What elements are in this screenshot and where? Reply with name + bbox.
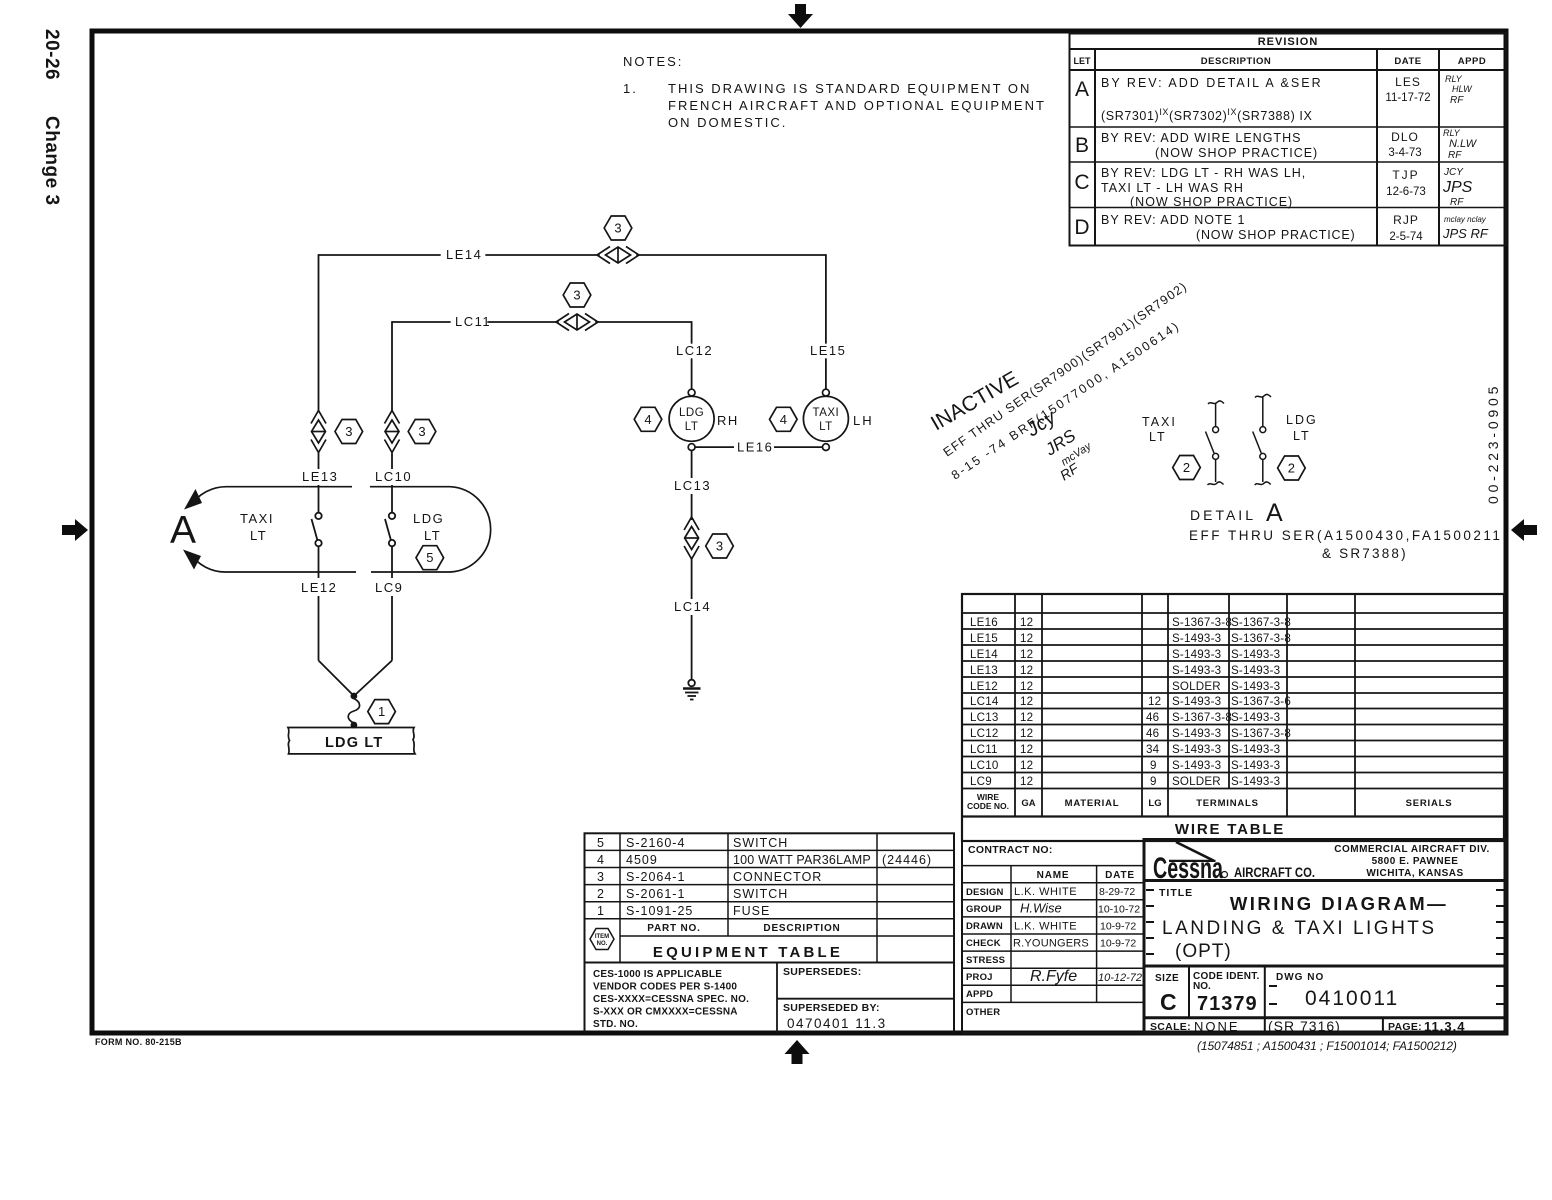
wire LE14 horizontal [319,254,441,256]
svg-text:46: 46 [1146,711,1159,724]
svg-text:SUPERSEDES:: SUPERSEDES: [783,966,862,978]
svg-text:4: 4 [644,412,651,427]
svg-text:SUPERSEDED BY:: SUPERSEDED BY: [783,1002,880,1014]
junction node at bus [351,722,358,729]
top fold arrow [788,4,813,28]
hexagon flag 1 [368,700,396,724]
hexagon flag 4 left of LDG lamp [634,407,662,431]
svg-text:LC11: LC11 [455,314,491,329]
svg-text:2: 2 [597,887,605,901]
svg-text:LE16: LE16 [970,616,998,629]
svg-text:PART NO.: PART NO. [647,923,700,934]
svg-text:TJP: TJP [1392,168,1419,182]
detail capsule boundary A [190,487,491,572]
svg-text:LDG: LDG [1286,413,1318,427]
svg-text:LT: LT [1149,430,1167,444]
svg-text:S-1367-3-8: S-1367-3-8 [1231,616,1291,629]
fuse F1 pigtail [348,699,359,724]
svg-text:REVISION: REVISION [1258,36,1319,48]
svg-text:5: 5 [426,550,433,565]
svg-text:ON DOMESTIC.: ON DOMESTIC. [668,115,787,130]
svg-text:3: 3 [418,424,425,439]
svg-text:S-1367-3-6: S-1367-3-6 [1231,695,1291,708]
svg-text:LE15: LE15 [810,343,846,358]
svg-text:12: 12 [1020,680,1033,693]
svg-text:71379: 71379 [1197,993,1258,1015]
svg-text:ITEM: ITEM [595,934,609,940]
svg-text:TAXI: TAXI [1142,415,1177,429]
svg-text:LC9: LC9 [970,775,992,788]
svg-text:12: 12 [1020,695,1033,708]
svg-text:LT: LT [819,421,833,433]
svg-text:0410011: 0410011 [1305,987,1399,1010]
right fold arrow [1511,519,1537,541]
svg-text:DESCRIPTION: DESCRIPTION [763,923,840,934]
svg-text:C: C [1160,989,1177,1015]
svg-text:A: A [1075,78,1089,101]
svg-text:CES-1000 IS APPLICABLE: CES-1000 IS APPLICABLE [593,969,722,980]
svg-text:LC10: LC10 [375,469,412,484]
wire LE13 through capsule [318,453,320,513]
svg-text:S-2061-1: S-2061-1 [626,887,685,901]
size / code ident / dwg no [1155,971,1399,1015]
svg-text:PAGE:: PAGE: [1388,1021,1422,1033]
title block binding dashes [1146,890,1504,1004]
svg-text:10-9-72: 10-9-72 [1100,921,1136,933]
wire LC10 through capsule [391,453,393,513]
wire LC13 [691,451,693,521]
svg-text:LE15: LE15 [970,632,998,645]
scale row [1150,1018,1465,1034]
svg-text:CHECK: CHECK [966,938,1001,949]
svg-text:STD. NO.: STD. NO. [593,1019,638,1030]
svg-text:R.YOUNGERS: R.YOUNGERS [1013,938,1089,950]
svg-text:LT: LT [685,421,699,433]
revision table frame [1070,34,1507,246]
svg-text:S-1493-3: S-1493-3 [1231,711,1280,724]
svg-text:11.3.4: 11.3.4 [1424,1019,1465,1034]
svg-text:S-1493-3: S-1493-3 [1231,775,1280,788]
svg-text:RLY: RLY [1443,128,1461,138]
wire LC14 [691,559,693,680]
svg-text:(SR 7316): (SR 7316) [1268,1018,1341,1034]
svg-text:12: 12 [1020,664,1033,677]
svg-text:12: 12 [1020,727,1033,740]
svg-text:S-1493-3: S-1493-3 [1172,664,1221,677]
svg-text:LT: LT [1293,429,1311,443]
svg-text:12-6-73: 12-6-73 [1386,186,1426,198]
svg-text:SWITCH: SWITCH [733,836,788,850]
detail switch LDG label [1286,413,1318,443]
ground [683,680,701,700]
svg-text:A: A [1266,499,1283,527]
detail A caption [1189,499,1502,561]
svg-text:LH: LH [853,413,874,428]
svg-text:(SR7301)IX(SR7302)IX(SR7388) I: (SR7301)IX(SR7302)IX(SR7388) IX [1101,107,1313,123]
svg-text:LE14: LE14 [446,247,482,262]
svg-text:FRENCH AIRCRAFT AND OPTIONAL E: FRENCH AIRCRAFT AND OPTIONAL EQUIPMENT [668,98,1046,113]
svg-text:OTHER: OTHER [966,1007,1000,1018]
svg-text:3: 3 [614,221,621,236]
svg-text:0470401 11.3: 0470401 11.3 [787,1016,887,1031]
capsule arrowhead top [184,489,202,510]
svg-text:9: 9 [1150,759,1157,772]
wire LE14 left vertical drop [318,255,320,410]
svg-text:LE12: LE12 [301,580,337,595]
wire LC10 vertical drop [391,322,393,410]
svg-text:SERIALS: SERIALS [1406,798,1453,809]
svg-text:Change 3: Change 3 [41,116,62,206]
svg-text:10-12-72: 10-12-72 [1098,972,1142,984]
svg-text:(OPT): (OPT) [1175,941,1232,962]
svg-text:RF: RF [1448,150,1462,161]
svg-text:S-1367-3-8: S-1367-3-8 [1172,616,1232,629]
detail switch LDG LT [1253,394,1271,485]
connector symbol on LC11 (horizontal) [556,314,598,331]
hexagon flag 3 right of LC10 connector [408,420,436,444]
svg-text:3: 3 [716,539,723,554]
svg-text:12: 12 [1020,743,1033,756]
svg-text:5800 E. PAWNEE: 5800 E. PAWNEE [1372,856,1459,867]
left fold arrow [62,519,88,541]
svg-text:DESCRIPTION: DESCRIPTION [1201,56,1271,67]
connector symbol on LC10 (vertical) [385,411,400,453]
svg-text:TERMINALS: TERMINALS [1196,798,1259,809]
svg-text:S-1493-3: S-1493-3 [1172,759,1221,772]
svg-text:SWITCH: SWITCH [733,887,788,901]
svg-text:4: 4 [780,412,787,427]
svg-text:TAXI LT - LH WAS RH: TAXI LT - LH WAS RH [1101,181,1244,195]
svg-text:S-1493-3: S-1493-3 [1172,727,1221,740]
svg-text:CODE NO.: CODE NO. [967,801,1009,811]
connector symbol on LE13 (vertical) [311,411,326,453]
svg-text:S-1493-3: S-1493-3 [1172,695,1221,708]
title [1159,887,1448,962]
wire LE15 right vertical drop [825,255,827,343]
svg-text:RF: RF [1450,197,1464,208]
svg-text:LC14: LC14 [674,599,711,614]
svg-text:2: 2 [1288,461,1295,476]
svg-text:20-26: 20-26 [41,29,62,80]
svg-text:APPD: APPD [966,989,993,1000]
svg-text:LC10: LC10 [970,759,999,772]
svg-text:R.Fyfe: R.Fyfe [1030,968,1077,985]
bus bar LDG LT [288,728,415,754]
svg-text:DRAWN: DRAWN [966,921,1003,932]
hexagon flag 4 left of TAXI lamp [770,407,798,431]
svg-text:S-2064-1: S-2064-1 [626,870,685,884]
svg-text:10-10-72: 10-10-72 [1098,904,1140,916]
svg-text:B: B [1075,134,1089,157]
svg-text:3: 3 [345,424,352,439]
wire LE16 [695,446,823,448]
svg-text:FUSE: FUSE [733,904,770,918]
wire LC9 [356,596,393,695]
lamp TAXI LT LH [803,389,848,450]
svg-text:LG: LG [1148,798,1161,809]
detail switch TAXI LT [1206,401,1225,485]
svg-text:NONE: NONE [1194,1019,1240,1034]
svg-text:1: 1 [597,904,605,918]
svg-text:LC9: LC9 [375,580,403,595]
svg-text:100 WATT PAR36LAMP: 100 WATT PAR36LAMP [733,853,871,867]
svg-text:LDG: LDG [413,511,444,526]
svg-text:LES: LES [1395,75,1421,89]
svg-text:LC12: LC12 [676,343,713,358]
svg-text:H.Wise: H.Wise [1020,901,1062,916]
svg-text:D: D [1074,216,1089,239]
svg-text:9: 9 [1150,775,1157,788]
svg-text:LE13: LE13 [970,664,998,677]
svg-text:mclay nclay: mclay nclay [1444,215,1487,224]
svg-text:S-1493-3: S-1493-3 [1172,743,1221,756]
svg-text:SOLDER: SOLDER [1172,775,1221,788]
hexagon flag 2 (ldg) [1278,456,1306,480]
svg-text:S-2160-4: S-2160-4 [626,836,685,850]
svg-text:LET: LET [1074,56,1092,66]
svg-text:S-1367-3-8: S-1367-3-8 [1231,632,1291,645]
svg-text:12: 12 [1020,616,1033,629]
svg-text:1.: 1. [623,81,638,96]
svg-text:LT: LT [424,528,441,543]
svg-text:L.K. WHITE: L.K. WHITE [1014,886,1077,898]
hexagon flag 3 above LE14 connector [604,216,632,240]
svg-text:A: A [170,509,196,552]
svg-text:12: 12 [1020,775,1033,788]
svg-text:8-29-72: 8-29-72 [1099,886,1135,898]
svg-text:GROUP: GROUP [966,904,1002,915]
svg-text:12: 12 [1020,648,1033,661]
svg-text:WIRING DIAGRAM—: WIRING DIAGRAM— [1230,893,1448,914]
svg-text:LANDING & TAXI LIGHTS: LANDING & TAXI LIGHTS [1162,918,1437,939]
svg-text:RH: RH [717,413,739,428]
svg-text:FORM NO. 80-215B: FORM NO. 80-215B [95,1037,182,1047]
svg-text:12: 12 [1020,759,1033,772]
svg-text:4509: 4509 [626,853,658,867]
svg-text:LT: LT [250,528,267,543]
svg-text:4: 4 [597,853,605,867]
svg-text:3-4-73: 3-4-73 [1388,147,1421,159]
svg-text:34: 34 [1146,743,1160,756]
svg-text:LC13: LC13 [674,478,711,493]
svg-text:STRESS: STRESS [966,955,1005,966]
svg-text:NOTES:: NOTES: [623,54,683,69]
svg-text:JPS: JPS [1442,179,1473,196]
svg-text:1: 1 [378,704,385,719]
svg-text:DLO: DLO [1391,130,1419,144]
capsule arrowhead bottom [183,550,201,570]
svg-text:(24446): (24446) [882,853,932,867]
svg-text:LDG LT: LDG LT [325,735,383,751]
svg-text:S-1367-3-8: S-1367-3-8 [1172,711,1232,724]
svg-text:C: C [1074,171,1089,194]
switch TAXI LT label [240,511,274,543]
hexagon flag 2 (taxi) [1173,456,1201,480]
svg-text:WIRE TABLE: WIRE TABLE [1175,821,1285,838]
svg-text:00-223-0905: 00-223-0905 [1485,383,1501,504]
svg-text:NO.: NO. [1193,981,1211,992]
svg-text:12: 12 [1020,711,1033,724]
svg-text:(NOW SHOP PRACTICE): (NOW SHOP PRACTICE) [1196,228,1355,242]
item no hexagon [590,929,614,950]
hexagon flag 3 right of LC13 connector [706,534,734,558]
svg-text:CONTRACT NO:: CONTRACT NO: [968,844,1053,856]
svg-text:BY REV: LDG LT - RH WAS LH,: BY REV: LDG LT - RH WAS LH, [1101,166,1306,180]
svg-text:S-1493-3: S-1493-3 [1172,648,1221,661]
svg-text:COMMERCIAL AIRCRAFT DIV.: COMMERCIAL AIRCRAFT DIV. [1334,844,1490,855]
svg-text:5: 5 [597,836,605,850]
svg-text:BY REV: ADD DETAIL A &SER: BY REV: ADD DETAIL A &SER [1101,76,1323,90]
svg-text:HLW: HLW [1452,84,1473,94]
hexagon flag 3 right of LE13 connector [335,420,363,444]
svg-text:LC12: LC12 [970,727,999,740]
detail switch TAXI label [1142,415,1177,444]
junction node [351,693,358,700]
svg-text:CES-XXXX=CESSNA SPEC. NO.: CES-XXXX=CESSNA SPEC. NO. [593,994,749,1005]
svg-text:S-1367-3-8: S-1367-3-8 [1231,727,1291,740]
svg-text:S-XXX OR CMXXXX=CESSNA: S-XXX OR CMXXXX=CESSNA [593,1007,738,1018]
switch LDG LT [385,513,395,578]
svg-text:LDG: LDG [679,407,704,419]
svg-text:RF: RF [1450,95,1464,106]
svg-text:APPD: APPD [1458,56,1486,67]
svg-text:WICHITA, KANSAS: WICHITA, KANSAS [1366,868,1463,879]
svg-text:S-1493-3: S-1493-3 [1231,743,1280,756]
svg-text:TAXI: TAXI [813,407,840,419]
svg-text:S-1493-3: S-1493-3 [1231,664,1280,677]
svg-text:46: 46 [1146,727,1159,740]
hexagon flag 5 [416,546,444,570]
svg-text:LC13: LC13 [970,711,999,724]
svg-text:S-1493-3: S-1493-3 [1231,680,1280,693]
wire LC12 vertical [691,322,693,343]
svg-text:VENDOR CODES PER S-1400: VENDOR CODES PER S-1400 [593,982,737,993]
Cessna logo [1153,842,1315,885]
svg-text:DESIGN: DESIGN [966,887,1004,898]
supersedes box [777,963,954,1034]
svg-text:N.LW: N.LW [1449,138,1478,150]
connector symbol on LE14 (horizontal) [597,247,639,264]
wire LC11 horizontal [392,321,450,323]
svg-text:Cessna: Cessna [1153,852,1223,885]
svg-text:JPS RF: JPS RF [1442,226,1489,241]
switch LDG LT label [413,511,444,543]
svg-text:LE14: LE14 [970,648,998,661]
svg-text:3: 3 [597,870,605,884]
svg-text:DATE: DATE [1394,56,1421,67]
svg-text:LC14: LC14 [970,695,999,708]
svg-text:THIS DRAWING IS STANDARD EQUIP: THIS DRAWING IS STANDARD EQUIPMENT ON [668,81,1031,96]
svg-text:SIZE: SIZE [1155,973,1179,984]
svg-text:S-1493-3: S-1493-3 [1231,648,1280,661]
svg-text:GA: GA [1021,798,1035,809]
svg-text:RLY: RLY [1445,74,1463,84]
svg-text:11-17-72: 11-17-72 [1385,92,1430,104]
svg-text:SOLDER: SOLDER [1172,680,1221,693]
svg-text:SCALE:: SCALE: [1150,1021,1191,1033]
svg-text:DATE: DATE [1105,870,1135,881]
svg-text:2-5-74: 2-5-74 [1389,231,1423,243]
svg-text:& SR7388): & SR7388) [1322,546,1408,561]
svg-text:RJP: RJP [1393,213,1419,227]
svg-text:12: 12 [1148,695,1161,708]
switch TAXI LT [312,513,322,578]
svg-text:S-1493-3: S-1493-3 [1231,759,1280,772]
svg-text:NAME: NAME [1037,870,1070,881]
svg-text:BY REV: ADD WIRE LENGTHS: BY REV: ADD WIRE LENGTHS [1101,131,1301,145]
svg-text:EFF THRU SER(A1500430,FA150021: EFF THRU SER(A1500430,FA1500211 [1189,528,1502,543]
svg-text:BY REV: ADD NOTE 1: BY REV: ADD NOTE 1 [1101,213,1245,227]
connector symbol on LC13 (vertical) [684,517,699,559]
svg-text:JCY: JCY [1443,167,1464,178]
svg-text:LE12: LE12 [970,680,998,693]
svg-text:DETAIL: DETAIL [1190,507,1256,523]
drawing border frame [92,31,1506,1033]
hexagon flag 3 above LC11 connector [563,283,591,307]
bottom fold arrow [785,1040,810,1064]
svg-text:DWG NO: DWG NO [1276,972,1324,983]
wire LE12 [319,596,353,695]
svg-text:EQUIPMENT TABLE: EQUIPMENT TABLE [653,944,843,961]
svg-text:CONNECTOR: CONNECTOR [733,870,822,884]
svg-text:AIRCRAFT CO.: AIRCRAFT CO. [1234,865,1315,881]
svg-text:NO.: NO. [597,941,608,947]
svg-text:MATERIAL: MATERIAL [1065,798,1120,809]
svg-text:2: 2 [1183,460,1190,475]
svg-text:PROJ: PROJ [966,972,993,983]
svg-text:(NOW SHOP PRACTICE): (NOW SHOP PRACTICE) [1155,146,1318,160]
svg-text:LE13: LE13 [302,469,338,484]
svg-text:L.K. WHITE: L.K. WHITE [1014,921,1077,933]
svg-text:LE16: LE16 [737,440,773,455]
svg-text:(15074851 ; A1500431 ; F150010: (15074851 ; A1500431 ; F15001014; FA1500… [1197,1039,1457,1053]
svg-text:TITLE: TITLE [1159,887,1193,899]
svg-text:12: 12 [1020,632,1033,645]
svg-text:S-1091-25: S-1091-25 [626,904,693,918]
lamp LDG LT RH [669,389,714,450]
svg-text:(NOW SHOP PRACTICE): (NOW SHOP PRACTICE) [1130,195,1293,209]
division address [1334,844,1490,879]
vendor codes note [593,969,749,1030]
svg-text:TAXI: TAXI [240,511,274,526]
svg-text:LC11: LC11 [970,743,998,756]
svg-text:3: 3 [573,288,580,303]
svg-text:10-9-72: 10-9-72 [1100,938,1136,950]
svg-text:S-1493-3: S-1493-3 [1172,632,1221,645]
